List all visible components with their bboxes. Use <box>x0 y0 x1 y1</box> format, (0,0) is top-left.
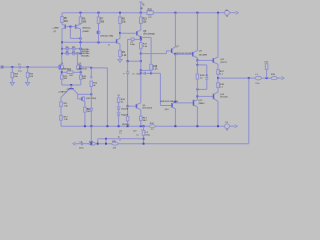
node input tap2 <box>27 66 29 68</box>
wire output line 3 <box>277 77 281 79</box>
wire comp cap left <box>128 38 132 40</box>
wire input 2 <box>20 66 58 68</box>
node fb x91.3 <box>90 143 92 145</box>
capacitor C5 column <box>141 126 151 136</box>
label speck2 <box>133 131 137 133</box>
node drive node <box>150 72 152 74</box>
wire drive right <box>151 72 160 74</box>
wire R13 rail <box>140 121 142 127</box>
transistor Q13 <box>214 92 219 101</box>
wire x128 low <box>127 74 129 107</box>
node bus x62 <box>61 41 63 43</box>
node Q5 base tap <box>119 32 121 34</box>
node output top <box>217 77 219 79</box>
svg-text:R25: R25 <box>148 9 153 11</box>
wire x107.4 column <box>106 68 108 126</box>
wire R10 to Q5 collector <box>140 24 142 30</box>
node railA x118.6 <box>118 125 120 127</box>
label small v <box>108 45 110 47</box>
transistor Q3 tail <box>61 89 77 97</box>
wire top V+ rail left segment <box>62 12 147 14</box>
wire drive down <box>159 73 161 105</box>
resistor R26 inline <box>271 74 277 80</box>
wire top V+ rail right segment <box>153 12 218 14</box>
svg-text:(2SC52: (2SC52 <box>220 62 226 64</box>
label speck1 <box>119 130 122 134</box>
node c r2 l <box>61 52 63 54</box>
node tail <box>70 84 72 86</box>
node railA x84.9 <box>84 125 86 127</box>
wire Q11 base <box>197 59 213 61</box>
capacitor C1 inline <box>18 64 23 72</box>
node out x266.6 <box>266 77 268 79</box>
wire R5 to Q1A <box>61 23 63 25</box>
node Q2 collector tap <box>76 52 78 54</box>
wire mirror bottom bus <box>62 41 116 43</box>
svg-text:D3: D3 <box>66 51 68 53</box>
svg-text:Q3: Q3 <box>66 89 69 91</box>
wire Q2 base route down <box>90 66 92 69</box>
transistor Q1B mirror right <box>70 24 80 29</box>
current arrow bias <box>117 95 120 98</box>
resistor R18 <box>150 64 158 70</box>
svg-text:(2N5401 2SA): (2N5401 2SA) <box>100 35 113 38</box>
resistor R21 <box>26 67 34 78</box>
wire R15 to rail <box>84 112 86 126</box>
wire mirror base down <box>69 27 71 39</box>
wire Q5 base feed <box>120 32 137 34</box>
node q13 base tap <box>196 95 198 97</box>
label Q1 pair <box>61 68 72 71</box>
transistor Q10 <box>172 102 175 109</box>
node x128 joint <box>127 60 129 62</box>
current source I4 <box>72 52 75 55</box>
svg-text:(2SC4883A): (2SC4883A) <box>143 33 155 36</box>
svg-text:1u: 1u <box>119 133 121 135</box>
transistor Q1 input pair left <box>58 64 63 69</box>
wire R21 gnd <box>27 78 29 82</box>
label Q2 pair <box>76 68 87 71</box>
node fb x106 <box>105 143 107 145</box>
wire source to port <box>230 12 236 14</box>
resistor R5 top-left <box>61 13 69 23</box>
wire cascode row1 <box>62 48 81 50</box>
resistor R9 <box>119 50 127 57</box>
resistor R28 inline <box>112 141 118 149</box>
node em right <box>80 71 82 73</box>
label Q7 <box>174 46 193 55</box>
label Q8 <box>100 35 113 38</box>
wire Q12 emitter down <box>196 107 198 126</box>
wire R16 D1 <box>118 103 120 107</box>
wire Q2 emitter down <box>80 69 82 75</box>
label Q10 <box>160 100 178 111</box>
wire R14 down <box>90 87 92 95</box>
wire c11 down <box>206 65 208 78</box>
wire Q9 collector up <box>196 13 198 51</box>
wire x97.7 drop <box>97 139 99 144</box>
node railA x218 <box>217 125 219 127</box>
node mirror base junction <box>69 26 71 28</box>
port arrow output <box>281 77 284 80</box>
label Q1B <box>82 28 91 33</box>
wire Q11 emitter <box>217 64 219 69</box>
current source I1 <box>66 47 69 50</box>
port input IN <box>1 66 3 68</box>
label Q1A <box>52 27 59 33</box>
wire R11 R12 <box>60 107 62 116</box>
label Q2 above <box>79 63 83 65</box>
node y138 x106 <box>105 138 107 140</box>
svg-text:2N5401a: 2N5401a <box>82 28 91 30</box>
wire out down right <box>248 78 250 144</box>
resistor R30 inline rail <box>150 123 156 131</box>
node railA x175.4 <box>174 125 176 127</box>
capacitor C13 column <box>264 61 269 78</box>
resistor R25 in-line on V+ rail <box>147 9 153 18</box>
wire mirror base to right col <box>70 37 80 39</box>
node c r1 r <box>80 48 82 50</box>
label Q4 <box>142 105 152 110</box>
resistor R14 <box>90 81 98 87</box>
resistor R7 <box>97 13 105 24</box>
wire R9 to ground <box>119 57 121 59</box>
svg-text:(2SA97: (2SA97 <box>82 30 90 33</box>
wire R37 out <box>217 74 219 78</box>
wire Q4 base <box>128 105 137 107</box>
wire y67.9 bus <box>91 67 107 69</box>
wire Q7 base bend <box>166 51 171 54</box>
wire bias down <box>84 101 86 107</box>
node railA x197.4 <box>196 125 198 127</box>
wire D7 top <box>90 94 92 108</box>
label Q5 <box>143 31 155 36</box>
wire Q1A collector down <box>61 29 63 43</box>
svg-text:1N4148: 1N4148 <box>121 109 129 111</box>
wire tick x120 <box>119 139 121 142</box>
power flag V+ net label <box>139 2 145 13</box>
svg-text:2SC5200: 2SC5200 <box>220 97 228 99</box>
wire emitter left <box>62 71 67 73</box>
svg-text:R10: R10 <box>143 19 148 21</box>
svg-text:D1: D1 <box>66 47 68 49</box>
wire R18 bottom <box>150 70 152 73</box>
node junction rail x197.4 <box>196 12 198 14</box>
node comp2 tap <box>140 72 142 74</box>
svg-text:Cc: Cc <box>132 74 135 76</box>
wire Q2 collector up <box>76 53 78 65</box>
resistor R13 <box>140 116 148 122</box>
node railA x91.3 <box>90 125 92 127</box>
current source I2 <box>72 47 75 50</box>
wire V- rail <box>61 125 224 127</box>
node emitter top <box>140 36 142 38</box>
wire x91.3 drop <box>90 126 92 144</box>
resistor R15 <box>84 107 92 113</box>
wire Q12 base <box>175 102 193 104</box>
node junction rail x140.8 <box>140 12 142 14</box>
transistor Q12 <box>194 100 198 107</box>
transistor Q1A mirror left <box>62 24 70 29</box>
wire fb 4 <box>118 143 249 145</box>
node vas src top <box>90 67 92 69</box>
label Q3 <box>58 89 69 93</box>
wire Q3 right leg <box>78 94 82 99</box>
wire degen left down <box>61 79 63 85</box>
wire D2 rail <box>118 116 120 126</box>
wire Q9 emitter down <box>196 58 198 61</box>
wire mirror col left lower <box>61 42 63 53</box>
svg-text:D2: D2 <box>72 47 74 49</box>
svg-text:D4: D4 <box>72 51 74 53</box>
wire Q10 collector down <box>174 109 176 127</box>
node junction rail x80.5 <box>80 12 82 14</box>
svg-text:+2SA970 B: +2SA970 B <box>76 68 87 71</box>
node q12 base tap <box>174 101 176 103</box>
svg-text:1N4148a: 1N4148a <box>81 55 90 57</box>
wire output line 1 <box>218 77 255 79</box>
svg-text:(2N5401): (2N5401) <box>122 124 130 126</box>
wire q13 base route <box>197 95 213 97</box>
wire Q5 emitter node <box>140 37 142 43</box>
resistor R20 <box>11 67 19 78</box>
node junction rail x98.5 <box>98 12 100 14</box>
resistor R6 <box>79 13 87 24</box>
node Q7 emitter <box>174 53 176 55</box>
wire fb 2 <box>83 143 89 145</box>
transistor Q2 input pair right <box>76 64 81 69</box>
label above railA <box>122 124 130 126</box>
label Q12 <box>198 100 204 105</box>
wire V- source to port <box>230 125 235 127</box>
node bus x98.5 <box>98 41 100 43</box>
diode D7 <box>87 108 93 111</box>
wire Q2 base <box>82 66 92 68</box>
wire c11 right <box>197 64 206 66</box>
diode D6 <box>117 113 129 117</box>
node base-collector tie <box>80 37 82 39</box>
transistor Q6 <box>117 38 120 44</box>
inductor L1 <box>255 74 261 85</box>
wire Q13 emitter down <box>217 101 219 126</box>
wire y138 line <box>98 138 144 140</box>
wire D7 rail <box>90 112 92 127</box>
label I top <box>66 47 75 49</box>
wire Q1 emitter down <box>61 69 63 75</box>
label C5b <box>136 134 139 136</box>
wire mid bus y94.3 <box>78 93 92 95</box>
wire feedback rail <box>75 143 81 145</box>
transistor Q4b bias <box>81 97 85 102</box>
wire R12 rail <box>60 120 62 126</box>
label Q13 <box>220 94 228 99</box>
resistor R12 <box>60 115 69 121</box>
wire Q1B collector down <box>80 29 82 43</box>
node branch left <box>140 60 142 62</box>
svg-text:(2SA19: (2SA19 <box>198 102 204 105</box>
wire x128 lower <box>127 106 129 116</box>
transistor Q9 <box>193 50 198 58</box>
wire V+ rail to source <box>218 12 224 14</box>
capacitor C11 <box>204 75 208 79</box>
node c11 join <box>196 88 198 90</box>
label Q9 <box>199 50 208 56</box>
node junction rail x120 <box>119 12 121 14</box>
wire tail bus <box>62 84 81 86</box>
node fb x97.7 <box>97 143 99 145</box>
wire Q3 left leg <box>60 97 62 102</box>
capacitor C9 inline <box>79 142 84 150</box>
wire c11 low <box>206 79 208 89</box>
wire x128 top <box>127 39 129 61</box>
node y138 right <box>143 138 145 140</box>
wire x106 drop <box>105 139 107 144</box>
wire branch to R18 <box>141 69 151 71</box>
capacitor C8 inline <box>144 72 151 75</box>
resistor R16 <box>117 98 125 104</box>
wire emitter right <box>73 71 81 73</box>
wire C5 down <box>143 135 145 143</box>
svg-text:(2SC2240): (2SC2240) <box>142 108 152 110</box>
ground below R20 <box>10 82 14 86</box>
label Q1 above <box>61 63 65 65</box>
wire input <box>3 66 19 68</box>
node railA x107.4 <box>106 125 108 127</box>
resistor R10 <box>140 13 148 24</box>
transistor Q8 with circle <box>97 24 100 43</box>
wire C6 to rail <box>127 121 129 126</box>
node branch c11 <box>196 64 198 66</box>
node c r2 r <box>80 52 82 54</box>
wire emitter to right col <box>141 36 151 38</box>
node junction rail x175.4 <box>174 12 176 14</box>
resistor R8 <box>119 13 127 24</box>
resistor R27 inline <box>89 141 96 145</box>
node drive upper <box>196 59 198 61</box>
node branch right <box>140 69 142 71</box>
wire to comp2 cap <box>141 72 144 74</box>
label Q4b <box>86 98 96 100</box>
wire VAS out down <box>140 70 142 73</box>
node VAS mid <box>140 53 142 55</box>
transistor Q7 <box>172 47 176 54</box>
port arrow V+ out <box>236 11 239 14</box>
resistor R22 inline emitter <box>67 70 74 77</box>
wire mirror col right lower <box>80 42 82 53</box>
wire branch left <box>128 60 141 62</box>
wire x128 mid <box>127 61 129 71</box>
wire x175 long down <box>174 54 176 102</box>
wire x197 down1 <box>196 60 198 65</box>
resistor R17 <box>140 43 148 49</box>
node junction rail x218 <box>217 12 219 14</box>
resistor R19 <box>196 65 205 80</box>
node railA x140.8 <box>140 125 142 127</box>
capacitor C7 inline <box>130 38 141 46</box>
label flag138 <box>118 137 121 139</box>
wire R18 top <box>150 37 152 64</box>
wire tail down <box>70 85 72 88</box>
wire R38 down <box>217 87 219 92</box>
svg-text:+2SA9: +2SA9 <box>52 27 59 30</box>
label cascode block <box>81 49 90 57</box>
wire R20 gnd <box>11 78 13 82</box>
wire output line 2 <box>261 77 270 79</box>
capacitor C4 electrolytic <box>123 72 129 76</box>
wire Q11 collector up <box>217 13 219 57</box>
wire D1 D2 <box>118 110 120 113</box>
label Q11 <box>220 59 226 64</box>
wire Q7 collector up <box>174 13 176 47</box>
wire out to R38 <box>217 78 219 83</box>
wire R6 to Q1B <box>80 23 82 26</box>
node input tap1 <box>11 66 13 68</box>
node fb x143.5 <box>143 143 145 145</box>
node comp cap tap <box>140 38 142 40</box>
wire fb 3 <box>96 143 112 145</box>
wire cascode row2 <box>62 52 81 54</box>
node railA x143.5 <box>143 125 145 127</box>
svg-text:2SC4883: 2SC4883 <box>199 55 208 57</box>
label Cc <box>132 74 140 76</box>
wire degen right down <box>80 79 82 85</box>
node em left <box>61 71 63 73</box>
wire Q1 collector up <box>61 53 63 65</box>
node bus x80.5 <box>80 41 82 43</box>
wire drive to Q10 <box>160 105 172 107</box>
node out x248.8 <box>248 77 250 79</box>
node railA x127.6 <box>127 125 129 127</box>
wire VAS mid down <box>140 54 142 62</box>
transistor Q11 <box>213 57 218 64</box>
wire to Q6 collector <box>119 33 121 38</box>
wire R17 down <box>140 49 142 54</box>
port arrow V- <box>235 125 238 128</box>
node Q4 base tap <box>127 105 129 107</box>
wire R8 down <box>119 24 121 34</box>
transistor Q5 <box>137 30 141 37</box>
node bias top2 <box>90 93 92 95</box>
wire VAS low down <box>140 61 142 70</box>
wire VAS long down <box>140 73 142 103</box>
wire Q9 base <box>175 53 192 55</box>
resistor R37 <box>217 70 225 76</box>
voltage source V4 (V- supply) <box>225 122 230 132</box>
voltage source V3 (V+ supply) <box>225 10 230 18</box>
wire Q6 emitter down <box>119 44 121 50</box>
svg-text:1v: 1v <box>108 45 110 47</box>
transistor Q4 <box>137 103 141 110</box>
wire base feed Q7 <box>141 53 167 55</box>
node c r1 l <box>61 48 63 50</box>
current source I3 <box>66 52 69 55</box>
label I bot <box>66 51 75 53</box>
resistor R38 <box>217 83 225 89</box>
wire c11 join <box>197 88 206 90</box>
resistor R23 degen left <box>61 75 69 80</box>
resistor R11 <box>60 102 69 108</box>
svg-text:1N4148: 1N4148 <box>121 115 129 117</box>
diode D5 <box>117 107 129 111</box>
capacitor C6 <box>124 115 129 121</box>
ground below R9 <box>118 59 122 63</box>
resistor R24 degen right <box>80 75 87 80</box>
wire x197 low <box>196 79 198 100</box>
port arrow feedback <box>73 142 76 145</box>
wire Q4 emitter <box>140 110 142 117</box>
ground below R21 <box>26 82 30 86</box>
current arrow VAS <box>90 68 93 79</box>
